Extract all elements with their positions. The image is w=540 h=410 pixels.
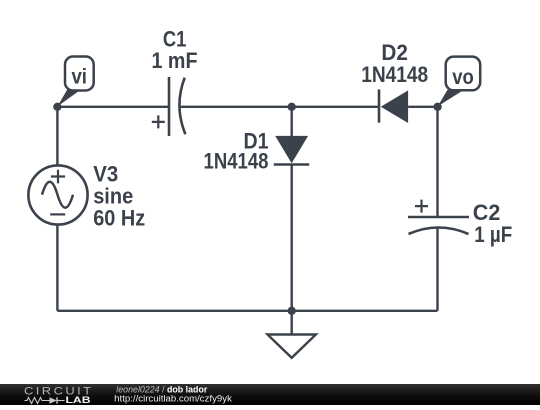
svg-text:http://circuitlab.com/czfy9yk: http://circuitlab.com/czfy9yk — [114, 393, 232, 404]
svg-text:1 mF: 1 mF — [152, 48, 198, 73]
svg-text:vo: vo — [452, 66, 474, 89]
svg-text:1 µF: 1 µF — [474, 222, 512, 247]
svg-text:vi: vi — [71, 66, 87, 89]
svg-text:60 Hz: 60 Hz — [93, 206, 145, 231]
svg-text:1N4148: 1N4148 — [204, 149, 269, 174]
svg-text:LAB: LAB — [66, 395, 91, 405]
svg-text:1N4148: 1N4148 — [361, 62, 428, 87]
